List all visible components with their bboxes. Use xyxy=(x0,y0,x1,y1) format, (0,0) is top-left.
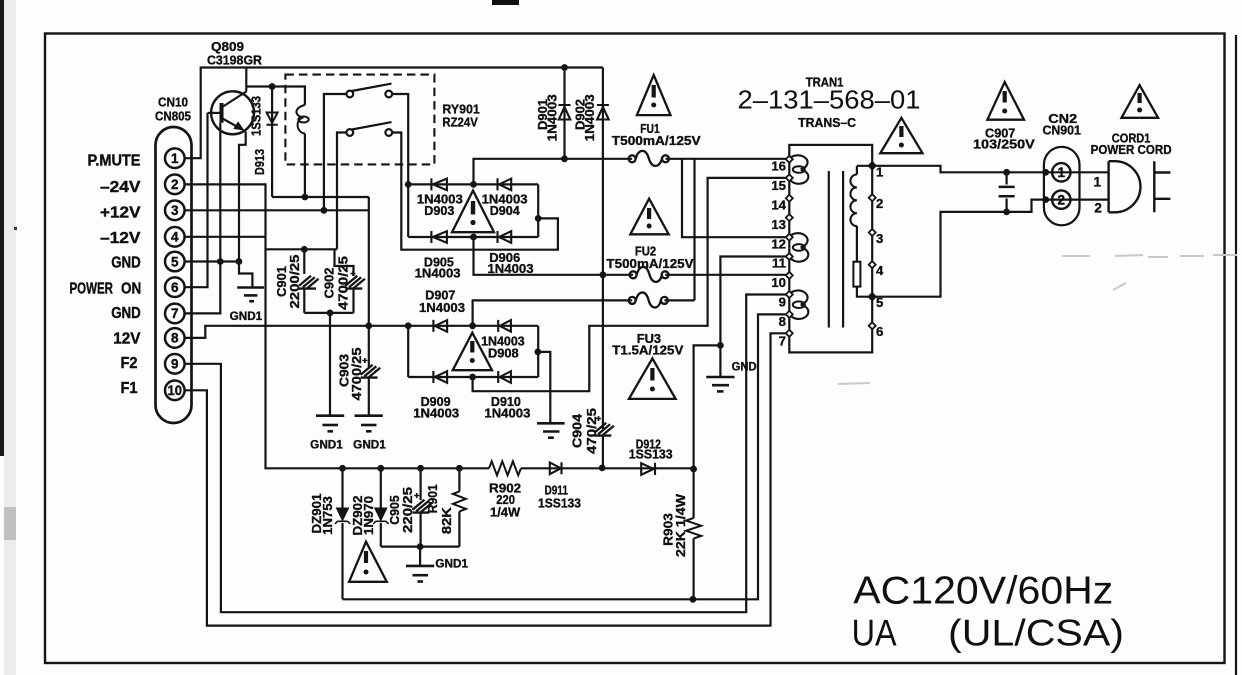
svg-text:13: 13 xyxy=(771,217,786,232)
svg-text:103/250V: 103/250V xyxy=(973,136,1035,151)
svg-text:2: 2 xyxy=(876,196,883,211)
svg-text:8: 8 xyxy=(171,331,179,346)
svg-text:UA: UA xyxy=(852,613,897,654)
svg-text:4: 4 xyxy=(876,263,884,278)
svg-text:15: 15 xyxy=(771,178,786,193)
svg-text:T500mA/125V: T500mA/125V xyxy=(606,256,693,271)
svg-text:1N4003: 1N4003 xyxy=(419,300,465,315)
svg-text:C902: C902 xyxy=(322,268,337,299)
svg-text:D908: D908 xyxy=(488,345,519,360)
svg-text:7: 7 xyxy=(779,333,786,348)
svg-text:5: 5 xyxy=(876,295,883,310)
svg-text:1SS133: 1SS133 xyxy=(629,447,673,462)
svg-text:+12V: +12V xyxy=(100,205,141,222)
svg-text:9: 9 xyxy=(171,357,179,372)
svg-text:2: 2 xyxy=(171,177,179,192)
svg-text:GND1: GND1 xyxy=(230,311,263,323)
svg-text:1: 1 xyxy=(171,151,179,166)
svg-text:2: 2 xyxy=(1094,200,1102,215)
svg-text:TRANS–C: TRANS–C xyxy=(798,115,856,130)
svg-text:C3198GR: C3198GR xyxy=(207,53,262,68)
svg-text:1: 1 xyxy=(1093,174,1101,189)
svg-text:1SS133: 1SS133 xyxy=(538,495,581,510)
svg-text:GND1: GND1 xyxy=(353,440,386,452)
svg-text:1N753: 1N753 xyxy=(320,496,335,535)
svg-text:8: 8 xyxy=(779,314,786,329)
svg-text:12: 12 xyxy=(771,236,786,251)
svg-text:3: 3 xyxy=(876,231,883,246)
svg-text:RZ24V: RZ24V xyxy=(442,115,478,130)
svg-text:14: 14 xyxy=(771,198,786,213)
svg-text:D903: D903 xyxy=(424,203,454,218)
svg-text:T500mA/125V: T500mA/125V xyxy=(612,133,701,148)
svg-text:CN805: CN805 xyxy=(155,109,191,124)
svg-text:220/25: 220/25 xyxy=(400,487,415,533)
svg-text:7: 7 xyxy=(171,306,179,321)
svg-text:6: 6 xyxy=(876,324,883,339)
svg-text:1N4003: 1N4003 xyxy=(484,406,530,421)
svg-text:1N970: 1N970 xyxy=(361,496,376,535)
svg-text:22K 1/4W: 22K 1/4W xyxy=(673,493,688,557)
svg-text:4700/25: 4700/25 xyxy=(349,348,364,401)
svg-text:10: 10 xyxy=(771,275,786,290)
svg-text:2–131–568–01: 2–131–568–01 xyxy=(738,85,921,115)
svg-text:1N4003: 1N4003 xyxy=(415,265,461,280)
svg-text:12V: 12V xyxy=(113,330,141,347)
svg-text:F1: F1 xyxy=(121,380,138,397)
svg-text:D913: D913 xyxy=(252,149,267,175)
svg-text:POWER CORD: POWER CORD xyxy=(1091,142,1172,157)
svg-text:16: 16 xyxy=(771,159,786,174)
svg-text:1: 1 xyxy=(1058,165,1066,180)
svg-text:1SS133: 1SS133 xyxy=(249,96,264,136)
svg-text:5: 5 xyxy=(171,254,179,269)
svg-text:9: 9 xyxy=(779,295,786,310)
svg-text:GND1: GND1 xyxy=(435,558,468,570)
svg-text:D904: D904 xyxy=(490,203,521,218)
svg-text:470/25: 470/25 xyxy=(584,408,599,454)
svg-text:C904: C904 xyxy=(569,413,584,448)
svg-text:1N4003: 1N4003 xyxy=(488,261,534,276)
svg-text:1N4003: 1N4003 xyxy=(413,406,459,421)
svg-text:6: 6 xyxy=(171,280,179,295)
svg-text:3: 3 xyxy=(171,203,179,218)
svg-text:T1.5A/125V: T1.5A/125V xyxy=(612,342,683,357)
svg-text:GND: GND xyxy=(111,305,141,322)
svg-text:ON: ON xyxy=(121,281,141,298)
svg-text:GND1: GND1 xyxy=(310,440,343,452)
svg-text:GND: GND xyxy=(111,255,141,272)
svg-text:82K: 82K xyxy=(439,507,454,535)
svg-text:10: 10 xyxy=(168,383,183,398)
svg-text:P.MUTE: P.MUTE xyxy=(88,153,141,170)
svg-text:AC120V/60Hz: AC120V/60Hz xyxy=(853,570,1113,613)
svg-text:1: 1 xyxy=(876,164,883,179)
svg-text:POWER: POWER xyxy=(70,281,114,298)
svg-text:4700/25: 4700/25 xyxy=(335,256,350,310)
svg-text:F2: F2 xyxy=(121,355,138,372)
svg-text:4: 4 xyxy=(171,230,179,245)
svg-text:CN10: CN10 xyxy=(158,95,188,110)
svg-text:–24V: –24V xyxy=(100,179,141,196)
svg-text:2: 2 xyxy=(1058,193,1066,208)
svg-text:R901: R901 xyxy=(425,484,440,513)
svg-text:1N4003: 1N4003 xyxy=(582,94,597,141)
svg-text:1/4W: 1/4W xyxy=(490,505,521,520)
svg-text:GND: GND xyxy=(732,362,757,374)
svg-text:11: 11 xyxy=(772,256,786,271)
svg-text:–12V: –12V xyxy=(100,230,141,247)
svg-text:CN901: CN901 xyxy=(1042,123,1081,138)
svg-text:1N4003: 1N4003 xyxy=(544,94,559,141)
svg-text:2200/25: 2200/25 xyxy=(287,255,302,309)
svg-text:(UL/CSA): (UL/CSA) xyxy=(948,613,1124,654)
